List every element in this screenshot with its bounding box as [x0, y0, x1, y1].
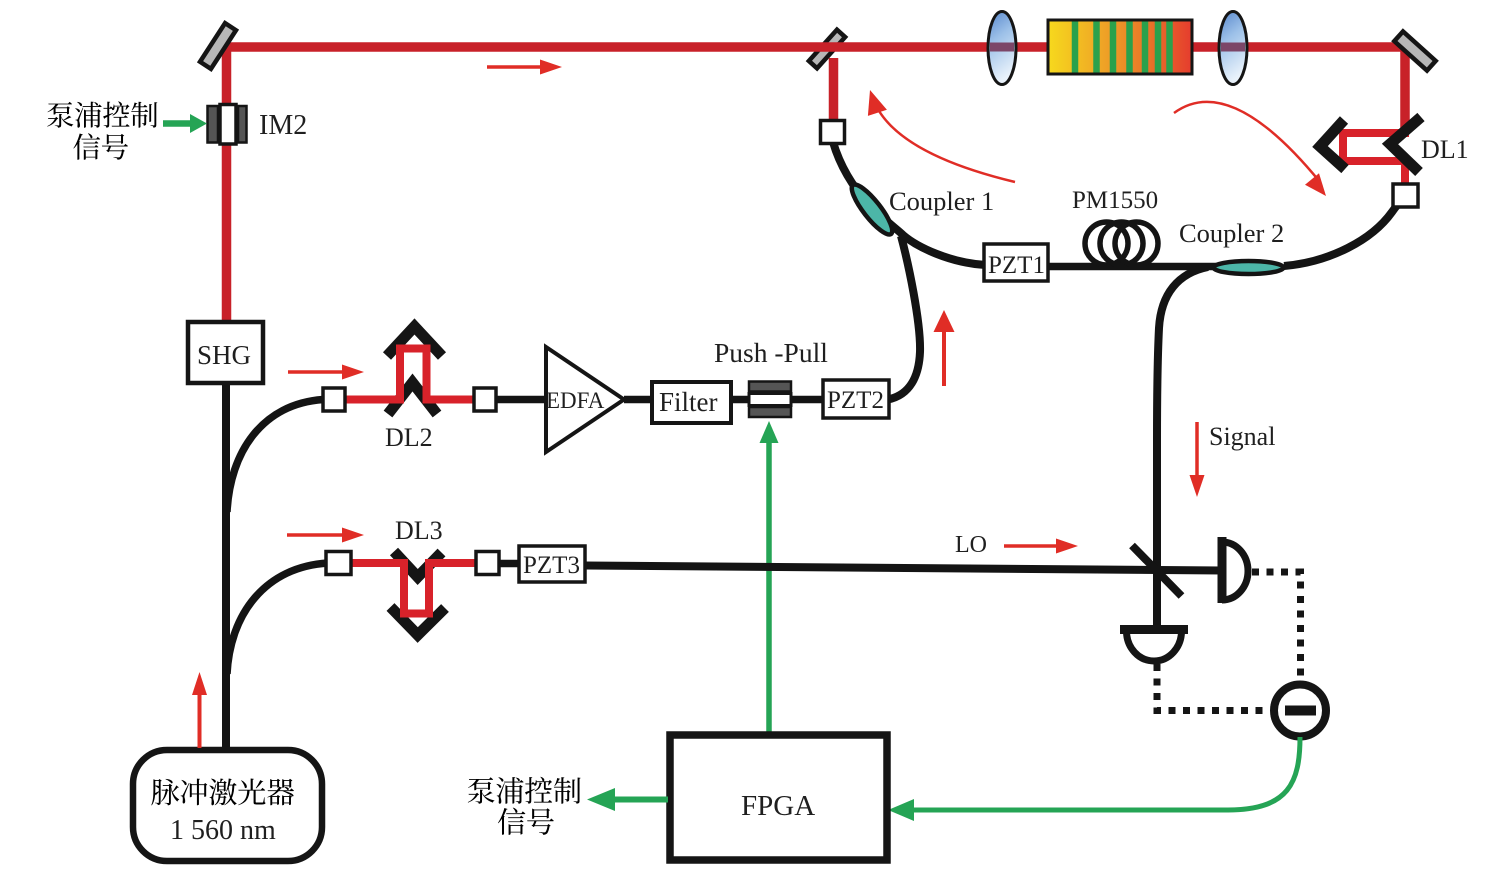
- fiber port square out of DL3: [476, 552, 499, 575]
- wire: fiber Push-Pull to PZT2: [789, 396, 826, 404]
- green pump control output arrow from FPGA: [587, 788, 668, 811]
- fiber port square into DL2: [323, 388, 345, 411]
- PM1550 fiber coil: [1085, 222, 1158, 265]
- FPGA box: [670, 735, 887, 860]
- svg-text:1 560 nm: 1 560 nm: [170, 815, 276, 846]
- fiber port square below DL1: [1393, 184, 1418, 207]
- wire: signal fiber down to homodyne detector: [1157, 267, 1208, 628]
- label pump control signal (bottom, chinese): [468, 777, 581, 835]
- wire: fiber from laser up to SHG: [222, 383, 230, 752]
- svg-text:Coupler 1: Coupler 1: [889, 186, 994, 216]
- svg-text:PZT2: PZT2: [827, 387, 884, 414]
- delay line DL2 mirrors: [387, 327, 442, 415]
- red arrow top beam direction: [487, 60, 562, 75]
- red curved arrow clockwise (right): [1174, 102, 1326, 196]
- red arrow SHG to DL2: [288, 365, 364, 380]
- label LO: [955, 532, 987, 558]
- svg-text:FPGA: FPGA: [741, 790, 815, 822]
- red arrow up at PZT2: [934, 310, 955, 386]
- red arrow LO direction: [1004, 539, 1078, 554]
- svg-text:DL3: DL3: [395, 516, 443, 545]
- svg-text:EDFA: EDFA: [546, 388, 605, 413]
- svg-text:PZT1: PZT1: [988, 252, 1045, 279]
- label pulsed laser (chinese): [151, 779, 294, 806]
- SHG box: [188, 322, 263, 383]
- fiber port square below mid mirror: [821, 121, 845, 144]
- wire: beam right vertical from top-right mirror down to DL1: [1400, 49, 1410, 133]
- nonlinear crystal: [1048, 20, 1192, 74]
- Filter box: [652, 382, 731, 423]
- delay line DL1 beam path: [1343, 129, 1405, 185]
- label DL1: [1421, 135, 1469, 164]
- wire: fiber DL2 output to EDFA: [496, 396, 549, 404]
- wire: fiber Coupler 2 up to DL1 port: [1284, 198, 1402, 266]
- green feedback from subtractor to FPGA: [888, 737, 1300, 821]
- mirror M1 (top-left): [200, 23, 236, 69]
- PZT3 box: [519, 546, 585, 582]
- delay line DL3 beam path: [348, 563, 479, 614]
- mirror M3 (top-middle tap): [809, 30, 845, 69]
- red arrow signal direction: [1190, 422, 1205, 497]
- svg-text:Push -Pull: Push -Pull: [714, 337, 828, 368]
- svg-text:SHG: SHG: [197, 340, 251, 370]
- green arrow into IM2: [163, 114, 207, 133]
- svg-text:DL1: DL1: [1421, 135, 1469, 164]
- label DL3: [395, 516, 443, 545]
- red curved arrow counter-clockwise (left): [868, 90, 1015, 182]
- wire: fiber PZT2 up to Coupler 1: [888, 236, 920, 400]
- label Signal: [1209, 422, 1275, 451]
- subtractor node: [1274, 685, 1326, 737]
- dotted link PD1 to subtractor: [1252, 572, 1301, 681]
- pulsed laser box: [133, 750, 322, 861]
- svg-text:DL2: DL2: [385, 423, 433, 452]
- red arrow out of laser: [192, 672, 207, 748]
- EDFA amplifier: [546, 347, 624, 452]
- label 1 560 nm: [170, 815, 276, 846]
- svg-text:Signal: Signal: [1209, 422, 1275, 451]
- wire: beam from mid mirror down to fiber coupler square: [829, 58, 839, 122]
- wire: fiber EDFA to Filter: [624, 396, 654, 404]
- label pump control signal (top left, chinese): [47, 101, 157, 159]
- dotted link PD2 to subtractor: [1157, 664, 1268, 711]
- delay line DL3 mirrors: [391, 552, 446, 636]
- fiber port square out of DL2: [474, 388, 496, 411]
- intensity modulator IM2: [208, 105, 247, 145]
- wire: fiber from free-space port through Coupler 1 to PZT1: [833, 142, 986, 265]
- red arrow into DL3: [287, 528, 364, 543]
- wire: fiber branch to DL3: [227, 563, 328, 674]
- delay line DL1 mirrors: [1320, 117, 1421, 172]
- photodetector PD2 (bottom): [1120, 630, 1188, 662]
- wire: free-space pump beam, top horizontal: [219, 42, 1414, 52]
- coupler 2 (fused fiber coupler): [1214, 261, 1284, 274]
- beam splitter: [1132, 546, 1182, 597]
- lens L2: [1219, 12, 1247, 85]
- coupler 1 (fused fiber coupler): [846, 180, 898, 239]
- svg-text:Filter: Filter: [659, 387, 718, 417]
- wire: fiber branch to DL2: [227, 400, 323, 513]
- svg-text:Coupler 2: Coupler 2: [1179, 218, 1284, 248]
- label Coupler 2: [1179, 218, 1284, 248]
- green control line up to Push-Pull: [760, 421, 779, 735]
- label Coupler 1: [889, 186, 994, 216]
- wire: fiber DL3 to PZT3: [499, 560, 521, 568]
- label DL2: [385, 423, 433, 452]
- push-pull fiber stretcher: [749, 382, 791, 418]
- label IM2: [259, 110, 307, 141]
- delay line DL2 beam path: [342, 349, 477, 400]
- label PM1550: [1072, 187, 1158, 214]
- mirror M4 (top-right): [1394, 31, 1435, 70]
- wire: LO fiber from PZT3 to beam splitter: [585, 566, 1222, 571]
- PZT1 box: [984, 244, 1048, 281]
- label Push-Pull: [714, 337, 828, 368]
- svg-text:PZT3: PZT3: [523, 552, 580, 579]
- svg-text:PM1550: PM1550: [1072, 187, 1158, 214]
- lens L1: [988, 12, 1016, 85]
- wire: fiber Filter to Push-Pull: [731, 396, 752, 404]
- svg-text:IM2: IM2: [259, 110, 307, 141]
- fiber port square into DL3: [326, 552, 351, 575]
- photodetector PD1 (right): [1222, 537, 1248, 603]
- svg-text:LO: LO: [955, 532, 987, 558]
- PZT2 box: [823, 380, 889, 418]
- wire: fiber PZT1 to Coupler 2: [1046, 263, 1250, 271]
- wire: pump beam, left vertical through IM2 to SHG: [222, 44, 232, 323]
